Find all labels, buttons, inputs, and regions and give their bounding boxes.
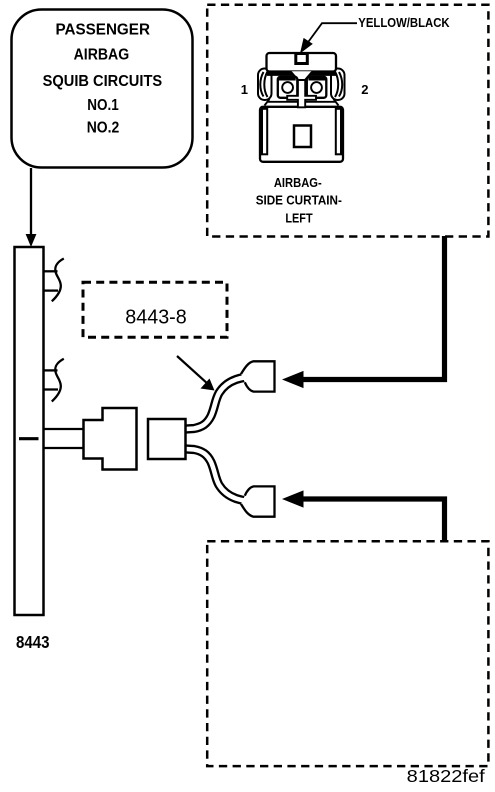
- svg-text:PASSENGER: PASSENGER: [55, 22, 150, 39]
- svg-text:NO.2: NO.2: [87, 119, 120, 136]
- svg-text:8443-8: 8443-8: [125, 307, 187, 329]
- svg-text:YELLOW/BLACK: YELLOW/BLACK: [358, 15, 450, 30]
- svg-text:AIRBAG: AIRBAG: [74, 47, 130, 64]
- svg-text:SQUIB CIRCUITS: SQUIB CIRCUITS: [43, 73, 163, 90]
- svg-text:81822fef: 81822fef: [407, 766, 485, 786]
- svg-text:NO.1: NO.1: [87, 97, 119, 114]
- svg-text:1: 1: [241, 82, 248, 97]
- svg-text:SIDE CURTAIN-: SIDE CURTAIN-: [256, 193, 342, 207]
- svg-text:LEFT: LEFT: [285, 212, 313, 226]
- svg-text:2: 2: [361, 82, 368, 97]
- svg-text:8443: 8443: [16, 632, 50, 652]
- svg-text:AIRBAG-: AIRBAG-: [274, 176, 322, 190]
